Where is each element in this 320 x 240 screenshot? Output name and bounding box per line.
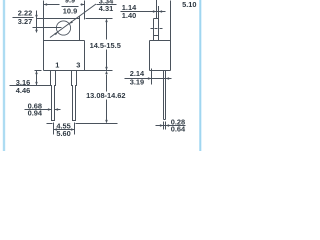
arrow 1.14 left: [153, 10, 157, 13]
arrow width-dim left: [44, 3, 48, 6]
dim line 2.14/3.19: [125, 78, 172, 80]
svg-text:10.9: 10.9: [63, 6, 77, 15]
arrow 2.22 top (down to tab top): [35, 15, 38, 19]
pin 1 (front): [51, 71, 56, 121]
arrow 13.08 bottom: [105, 120, 108, 124]
arrow hole dia upper-right: [69, 21, 72, 24]
arrow height dim bottom: [105, 67, 108, 71]
arrow hole dia lower-left: [54, 32, 57, 35]
svg-text:0.64: 0.64: [171, 125, 186, 134]
width dim right extension line: [84, 1, 86, 20]
arrow 0.68 left: [48, 108, 52, 111]
dim line / bar 0.28/0.64: [156, 125, 186, 127]
arrow width-dim right: [81, 3, 85, 6]
front view: tab left edge + extension up: [43, 1, 45, 71]
front view: tab right edge (with small extension above): [79, 17, 81, 41]
dim line 13.08-14.62 (collinear with height dim): [106, 75, 108, 92]
svg-text:1.40: 1.40: [122, 11, 136, 20]
hole centerline: [33, 27, 62, 29]
dim line 0.68/0.94: [25, 109, 52, 111]
dim line 2.22/3.27 vertical: [36, 11, 38, 33]
top reference line (for height dim): [86, 18, 113, 20]
front view: tab top edge (extends left for dim): [37, 18, 80, 20]
arrow 0.68 right: [55, 108, 59, 111]
front view: body right edge: [84, 41, 86, 71]
arrow 2.14 right: [166, 77, 170, 80]
svg-text:4.46: 4.46: [16, 86, 30, 95]
svg-text:5.60: 5.60: [56, 129, 70, 138]
side view: step boss: [154, 18, 159, 20]
extension line for 2.14/3.19: [151, 69, 153, 85]
front view: body bottom left extension tick: [35, 70, 42, 72]
fraction bar / ref line 3.16/4.46: [10, 85, 51, 87]
svg-text:5.10: 5.10: [182, 0, 196, 9]
fraction bar 9.9/10.9: [62, 6, 79, 8]
fraction bar / dim line 4.55/5.60: [54, 129, 75, 131]
lead-tip reference extension lines: [47, 123, 53, 125]
svg-text:3.19: 3.19: [130, 77, 144, 86]
svg-text:3: 3: [76, 61, 80, 70]
page border right: [199, 0, 202, 151]
side view: tab: [156, 0, 158, 19]
front view: body bottom edge + right extension: [44, 70, 113, 72]
arrow 2.22 bottom (up to centerline): [35, 28, 38, 32]
svg-text:4.31: 4.31: [99, 4, 113, 13]
height dim line 14.5-15.5: [106, 20, 108, 40]
side view: body: [150, 40, 171, 42]
svg-text:9.9: 9.9: [65, 0, 75, 4]
hole diameter leader diagonal: [50, 4, 96, 38]
width dim line segments: [44, 4, 60, 6]
dim line 1.14/1.40: [121, 11, 166, 13]
page border left: [3, 0, 6, 151]
arrow 4.55 left: [54, 128, 58, 131]
arrow 4.55 right: [71, 128, 75, 131]
arrow 2.14 left: [148, 77, 152, 80]
arrow height dim top: [105, 19, 108, 23]
svg-text:1: 1: [55, 61, 59, 70]
side view: hole hidden dashes: [151, 28, 154, 30]
arrow 1.14 right: [159, 10, 163, 13]
svg-text:14.5-15.5: 14.5-15.5: [90, 41, 121, 50]
fraction bar 3.34/4.31: [97, 4, 117, 6]
svg-text:13.08-14.62: 13.08-14.62: [86, 91, 125, 100]
arrow 13.08 top: [105, 71, 108, 75]
arrow 0.28 right: [166, 124, 170, 127]
side view: body right edge + extension to top: [170, 1, 172, 71]
mounting hole: [56, 21, 70, 35]
front view: tab/body step line: [44, 40, 85, 42]
dim line 3.16/4.46 vertical: [36, 71, 38, 86]
pin spacing bracket 4.55/5.60: [53, 123, 55, 135]
lead tip extension stubs: [163, 122, 165, 130]
fraction bar 2.22/3.27: [13, 17, 34, 19]
arrow 3.16 bottom: [35, 82, 38, 86]
pin 3 (front): [72, 71, 77, 121]
side view: lead: [163, 71, 165, 120]
arrow 3.16 top: [35, 71, 38, 75]
arrow 0.28 left: [160, 124, 164, 127]
svg-text:0.94: 0.94: [28, 109, 43, 118]
svg-text:3.27: 3.27: [18, 17, 32, 26]
